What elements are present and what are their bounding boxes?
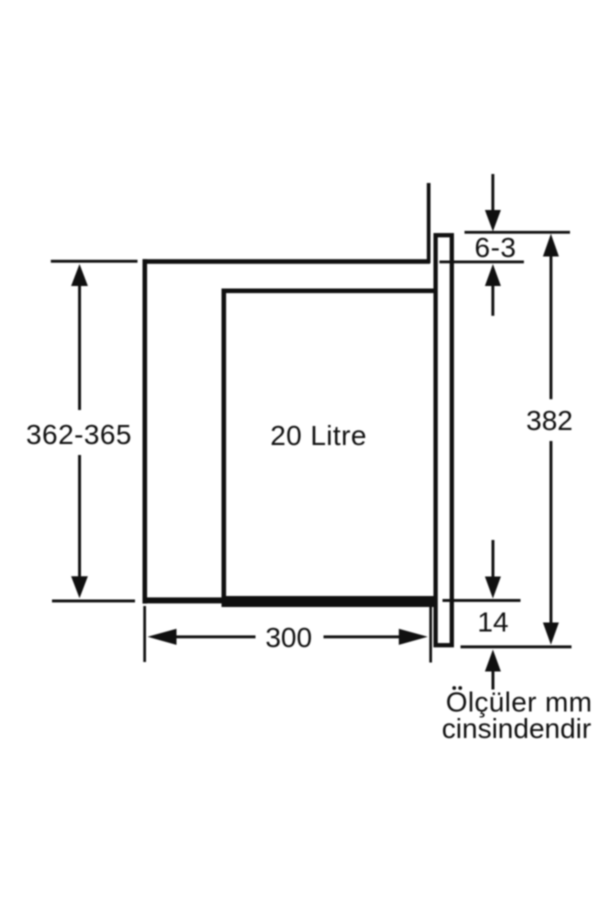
svg-text:300: 300	[265, 622, 312, 653]
front frame panel	[436, 235, 452, 645]
dim 6-3 down arrowhead	[485, 210, 501, 232]
microwave body left edge	[222, 289, 227, 608]
dim 14 down arrow line	[492, 540, 495, 578]
dim 382 down arrowhead	[543, 623, 559, 645]
shared bottom tick for 382 and 14	[461, 645, 572, 648]
dim 382 upper line	[550, 255, 553, 400]
cabinet left edge	[143, 259, 148, 603]
dim 14 up arrowhead	[485, 650, 501, 672]
dim 382 up arrowhead	[543, 234, 559, 257]
svg-text:362-365: 362-365	[26, 419, 132, 450]
dim 362-365 up arrowhead	[71, 264, 88, 286]
dim 6-3 up arrowhead	[485, 264, 501, 286]
dim 300 right arrowhead	[399, 629, 428, 645]
svg-text:6-3: 6-3	[475, 232, 517, 263]
dim 362-365 bottom tick	[52, 600, 135, 603]
wall vertical line above niche	[427, 183, 431, 263]
dim 362-365 lower line	[78, 455, 81, 578]
dim 6-3 top tick	[465, 231, 571, 234]
dim 14 up arrow line	[492, 670, 495, 690]
dim 14 down arrowhead	[485, 577, 501, 599]
dim 300 left extension line	[143, 606, 146, 662]
cabinet bottom edge	[143, 597, 434, 603]
dim 382 lower line	[550, 441, 553, 624]
microwave body bottom edge	[222, 596, 437, 607]
dim 14 top tick	[443, 599, 521, 602]
dim 300 line right segment	[324, 635, 400, 638]
dim 300 right extension line	[429, 605, 432, 663]
svg-text:20 Litre: 20 Litre	[270, 420, 367, 451]
cabinet top edge	[143, 259, 431, 264]
svg-text:cinsindendir: cinsindendir	[442, 713, 591, 744]
svg-text:14: 14	[477, 607, 508, 638]
dim 300 left arrowhead	[148, 629, 177, 645]
dim 300 line left segment	[175, 635, 256, 638]
microwave body top edge	[222, 289, 437, 294]
dim 362-365 upper line	[78, 284, 81, 410]
dim 6-3 bottom tick	[439, 261, 524, 264]
dim 362-365 top tick	[51, 260, 138, 263]
dim 6-3 down arrow line	[491, 174, 494, 212]
umlaut dots of O	[452, 686, 456, 690]
dim 6-3 up arrow line	[491, 284, 494, 316]
dim 362-365 down arrowhead	[71, 576, 88, 598]
svg-text:382: 382	[526, 405, 573, 436]
